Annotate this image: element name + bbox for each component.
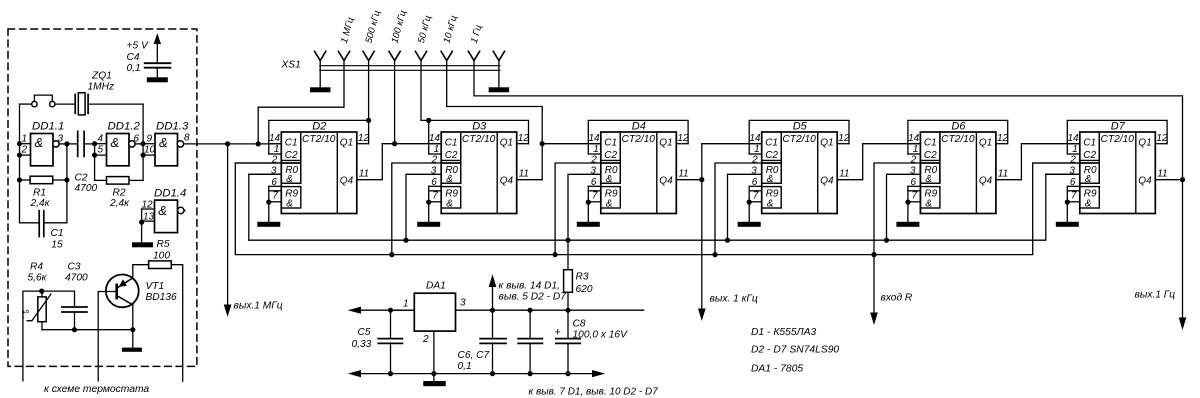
svg-text:R2: R2 (113, 187, 126, 198)
svg-text:2: 2 (910, 154, 917, 165)
svg-text:C1: C1 (285, 138, 298, 149)
svg-text:t°: t° (22, 309, 30, 321)
svg-text:&: & (446, 198, 453, 209)
svg-text:C1: C1 (924, 138, 937, 149)
svg-text:2,4к: 2,4к (109, 198, 130, 209)
wire: +9V input rail with arrow (348, 307, 415, 314)
svg-text:Q1: Q1 (979, 138, 992, 149)
ground for D5 R9 inputs (738, 222, 761, 227)
svg-text:12: 12 (518, 133, 530, 144)
svg-text:к выв. 14 D1,: к выв. 14 D1, (499, 280, 560, 291)
label: к выв. 7 D1, выв. 10 D2 - D7 (529, 387, 659, 398)
wire: D3 pin 3 to R0 rail (406, 174, 441, 240)
resistor R5 100 (133, 239, 183, 381)
svg-text:C2: C2 (285, 150, 298, 161)
svg-text:CT2/10: CT2/10 (1101, 134, 1135, 145)
svg-text:&: & (925, 174, 932, 185)
svg-text:&: & (606, 174, 613, 185)
wire: emitter-collector bottom net (42, 327, 135, 332)
svg-text:12: 12 (1156, 133, 1168, 144)
svg-text:C2: C2 (765, 150, 778, 161)
svg-text:620: 620 (576, 284, 593, 295)
ground for D3 R9 inputs (417, 222, 440, 227)
capacitor C7 0,1 (458, 310, 543, 373)
resistor R2 2,4k (107, 177, 144, 210)
capacitor C6 0,1 (480, 310, 506, 373)
svg-text:R1: R1 (33, 187, 46, 198)
wire: D6 pin 2 to reset rail (874, 163, 920, 255)
counter D6 CT2/10 (SN74LS90) (905, 120, 1021, 222)
svg-text:D2 - D7 SN74LS90: D2 - D7 SN74LS90 (751, 344, 839, 355)
svg-text:C2: C2 (924, 150, 937, 161)
capacitor C2 4700 (75, 131, 98, 194)
svg-text:вых.1 Гц: вых.1 Гц (1135, 290, 1176, 301)
regulator DA1 7805 (403, 281, 466, 346)
svg-text:D3: D3 (472, 120, 487, 132)
node: вход R input arrow (870, 252, 913, 325)
svg-text:4700: 4700 (75, 183, 98, 194)
svg-text:C1: C1 (765, 138, 778, 149)
svg-text:C1: C1 (445, 138, 458, 149)
svg-text:Q4: Q4 (659, 175, 673, 186)
wire: DD1.1 input node (crystal feedback left rail) (20, 104, 40, 223)
XS1 frequency labels (rotated) (339, 9, 485, 45)
svg-text:&: & (767, 174, 774, 185)
ground for DD1.4 inputs (132, 242, 153, 247)
svg-text:3: 3 (460, 298, 466, 309)
svg-text:2: 2 (590, 154, 597, 165)
gate DD1.3 (NAND &) (144, 120, 190, 166)
wire: DA1 pin 2 to ground (433, 331, 435, 381)
ground for D7 R9 inputs (1056, 222, 1079, 227)
svg-text:2: 2 (271, 154, 278, 165)
svg-text:DA1 - 7805: DA1 - 7805 (751, 364, 803, 375)
svg-text:C2: C2 (75, 172, 88, 183)
ground for D2 R9 inputs (257, 222, 280, 227)
wire: D7 pin 3 stub (1046, 173, 1080, 175)
svg-text:&: & (1085, 198, 1092, 209)
svg-text:3: 3 (1069, 166, 1075, 177)
wire: D2 pin 3 stub (249, 173, 281, 175)
capacitor C1 15 (39, 211, 63, 251)
gate DD1.4 (NAND &, inputs grounded) (139, 187, 186, 242)
svg-text:14: 14 (588, 133, 600, 144)
svg-text:&: & (606, 198, 613, 209)
transistor VT1 BD136 (PNP) (106, 265, 177, 348)
wire: C5 top branch (388, 308, 414, 313)
svg-text:CT2/10: CT2/10 (782, 134, 816, 145)
connector XS1 output pin forks (281, 51, 505, 70)
ground for VT1 collector (122, 348, 142, 352)
svg-text:&: & (925, 198, 932, 209)
svg-text:R5: R5 (157, 239, 170, 250)
svg-text:12: 12 (358, 133, 370, 144)
wire: 50 kHz tap from XS1 pin 5 (421, 61, 431, 123)
svg-text:D2: D2 (312, 120, 326, 132)
svg-text:12: 12 (677, 133, 689, 144)
svg-text:6: 6 (134, 133, 140, 144)
svg-text:C2: C2 (1083, 150, 1096, 161)
svg-text:D5: D5 (793, 120, 808, 132)
svg-text:5: 5 (98, 145, 104, 156)
counter D7 CT2/10 (SN74LS90) (1065, 120, 1181, 222)
wire: C2 to DD1.2 inputs and R2 left (92, 141, 107, 180)
svg-text:3: 3 (910, 166, 916, 177)
wire: R4/C3 top net to thermostat (23, 289, 75, 381)
svg-text:C1: C1 (51, 228, 64, 239)
XS1 pin 8 ground (489, 61, 510, 93)
gate DD1.1 (NAND) (21, 120, 67, 166)
svg-text:1: 1 (754, 144, 760, 155)
svg-text:Q4: Q4 (1138, 175, 1152, 186)
svg-text:Q1: Q1 (659, 138, 672, 149)
wire: reset input rail (pins 2, вход R) (235, 163, 1080, 257)
svg-text:1: 1 (593, 144, 599, 155)
gate DD1.2 (NAND &) (98, 120, 144, 166)
svg-text:1: 1 (403, 299, 409, 310)
node: вых.1 Гц output arrow (1135, 290, 1187, 330)
svg-text:Q4: Q4 (340, 175, 354, 186)
svg-text:C2: C2 (604, 150, 617, 161)
svg-text:&: & (286, 174, 293, 185)
svg-text:3: 3 (271, 166, 277, 177)
counter D2 CT2/10 (SN74LS90) (266, 120, 382, 222)
ground for C4 (147, 77, 168, 82)
svg-text:4: 4 (98, 133, 104, 144)
jumper S1 (crystal select) (20, 95, 76, 107)
counter D3 CT2/10 (SN74LS90) (426, 120, 542, 222)
wire: ground rail with arrows (348, 370, 605, 377)
crystal ZQ1 1MHz (75, 71, 143, 115)
svg-text:вход R: вход R (881, 292, 913, 303)
power +5 V arrow with capacitor C4 0,1 (127, 33, 171, 77)
ground for D4 R9 inputs (577, 222, 600, 227)
wire: D5 Q4 output to D6 pin 14 (837, 144, 920, 180)
svg-text:2: 2 (422, 334, 429, 345)
svg-text:вых. 1 кГц: вых. 1 кГц (710, 293, 758, 304)
svg-text:BD136: BD136 (146, 292, 177, 303)
wire: D2 Q4 output to D3 pin 14 (357, 144, 441, 180)
ground for DA1 (423, 381, 446, 386)
wire: crystal output rail down to DD1.3 inputs / R2 right (141, 104, 156, 180)
svg-text:C6, C7: C6, C7 (458, 350, 490, 361)
svg-text:7: 7 (753, 190, 759, 201)
svg-text:CT2/10: CT2/10 (462, 134, 496, 145)
XS1 pin 1 ground (310, 61, 331, 93)
svg-text:C1: C1 (604, 138, 617, 149)
capacitor C8 100,0 x 16V (electrolytic) (555, 310, 629, 373)
wire: +5V output rail (456, 308, 644, 313)
note: D1 - К555ЛА3 (751, 327, 816, 338)
svg-text:0,33: 0,33 (352, 339, 372, 350)
ground for D6 R9 inputs (896, 222, 919, 227)
svg-text:11: 11 (1157, 168, 1167, 179)
wire: D3 pin 2 to reset rail (392, 163, 441, 255)
svg-text:1: 1 (913, 144, 919, 155)
wire: D6 pin 3 to R0 rail (887, 174, 921, 240)
svg-text:D6: D6 (951, 120, 966, 132)
svg-text:3: 3 (751, 166, 757, 177)
svg-text:11: 11 (359, 168, 369, 179)
wire: D4 Q4 output to D5 pin 14 (676, 144, 761, 180)
XS1 bus rails (320, 66, 500, 71)
note: D2 - D7 SN74LS90 (751, 344, 839, 355)
svg-text:14: 14 (749, 133, 761, 144)
svg-text:7: 7 (592, 190, 598, 201)
wire: R0 rail (pins 3, pulled up by R3) (249, 174, 1080, 242)
svg-text:2,4к: 2,4к (30, 198, 51, 209)
svg-text:100,0 x 16V: 100,0 x 16V (573, 329, 629, 340)
wire: D4 pin 2 to reset rail (555, 163, 601, 255)
svg-text:C8: C8 (573, 319, 586, 330)
svg-text:Q1: Q1 (500, 138, 513, 149)
svg-text:12: 12 (997, 133, 1009, 144)
svg-text:C3: C3 (68, 261, 81, 272)
svg-text:&: & (446, 174, 453, 185)
svg-text:D7: D7 (1111, 120, 1126, 132)
svg-text:Q1: Q1 (340, 138, 353, 149)
svg-text:7: 7 (432, 190, 438, 201)
svg-text:&: & (111, 135, 120, 150)
svg-text:4700: 4700 (65, 272, 88, 283)
wire: 1 MHz net DD1.3 pin 8 output to D2 pin 14 (184, 141, 282, 146)
svg-text:R3: R3 (576, 271, 589, 282)
node: вых. 1 кГц output arrow (698, 177, 758, 321)
svg-text:14: 14 (908, 133, 920, 144)
wire: D6 Q4 output to D7 pin 14 (996, 144, 1080, 180)
svg-text:+5 V: +5 V (127, 41, 149, 52)
svg-text:11: 11 (998, 168, 1008, 179)
counter D5 CT2/10 (SN74LS90) (747, 120, 863, 222)
svg-text:11: 11 (839, 168, 849, 179)
svg-text:Q4: Q4 (820, 175, 834, 186)
svg-text:1MHz: 1MHz (88, 82, 115, 93)
svg-text:DD1.1: DD1.1 (32, 120, 64, 132)
svg-text:5,6к: 5,6к (28, 272, 48, 283)
svg-text:XS1: XS1 (281, 59, 301, 70)
wire: D7 pin 2 stub (1033, 162, 1080, 164)
wire: D2 pin 2 stub (235, 162, 281, 164)
wire: node 3 to C2 and R1/C1 branch (44, 141, 78, 223)
svg-text:7: 7 (272, 190, 278, 201)
svg-text:C2: C2 (445, 150, 458, 161)
svg-text:ZQ1: ZQ1 (91, 71, 112, 82)
svg-text:+: + (555, 327, 561, 339)
dashed enclosure (D1 thermostat section border) (8, 29, 197, 366)
svg-text:14: 14 (429, 133, 441, 144)
svg-text:11: 11 (678, 168, 688, 179)
svg-text:15: 15 (51, 240, 63, 251)
svg-text:C4: C4 (127, 52, 140, 63)
svg-text:3: 3 (590, 166, 596, 177)
capacitor C5 0,33 (352, 310, 403, 373)
svg-text:3: 3 (431, 166, 437, 177)
svg-text:10: 10 (144, 145, 156, 156)
svg-text:Q1: Q1 (1138, 138, 1151, 149)
wire: 500 kHz tap from XS1 pin 3 (366, 61, 371, 123)
svg-text:CT2/10: CT2/10 (941, 134, 975, 145)
svg-text:100: 100 (153, 251, 170, 262)
svg-text:12: 12 (838, 133, 850, 144)
svg-text:0,1: 0,1 (127, 63, 141, 74)
svg-text:Q1: Q1 (820, 138, 833, 149)
wire: D4 pin 3 to R0 rail (568, 174, 601, 240)
svg-text:VT1: VT1 (146, 281, 165, 292)
svg-text:2: 2 (21, 145, 28, 156)
wire: 1 Hz net from XS1 pin 7 to D7 output (474, 61, 1185, 322)
wire: VT1 base net to thermostat (98, 292, 116, 381)
svg-text:к схеме термостата: к схеме термостата (44, 384, 149, 395)
svg-text:к выв. 7 D1, выв. 10 D2 - D7: к выв. 7 D1, выв. 10 D2 - D7 (529, 387, 659, 398)
label: к схеме термостата (44, 384, 149, 395)
svg-text:выв. 5 D2 - D7: выв. 5 D2 - D7 (499, 292, 567, 303)
svg-text:8: 8 (184, 133, 190, 144)
junction dots on DD1.1 input rail (17, 141, 22, 183)
svg-text:DD1.4: DD1.4 (154, 187, 186, 199)
svg-text:Q4: Q4 (979, 175, 993, 186)
svg-text:DA1: DA1 (426, 281, 446, 292)
thermistor R4 5,6k (22, 261, 51, 329)
node: вых.1 МГц output arrow (224, 144, 283, 317)
wire: 100 kHz tap from XS1 pin 4 (392, 61, 397, 147)
svg-text:Q4: Q4 (500, 175, 514, 186)
svg-text:1: 1 (1072, 144, 1078, 155)
wire: D5 pin 2 to reset rail (715, 163, 762, 255)
svg-text:2: 2 (751, 154, 758, 165)
svg-text:7: 7 (912, 190, 918, 201)
note: DA1 - 7805 (751, 364, 803, 375)
wire: D3 Q4 output to D4 pin 14 (517, 144, 601, 180)
svg-text:C5: C5 (358, 327, 371, 338)
svg-text:2: 2 (431, 154, 438, 165)
svg-text:&: & (767, 198, 774, 209)
svg-text:1: 1 (434, 144, 440, 155)
svg-text:11: 11 (519, 168, 529, 179)
svg-text:&: & (1085, 174, 1092, 185)
wire: D5 pin 3 to R0 rail (728, 174, 762, 240)
wire: 1 MHz tap from XS1 pin 2 (258, 61, 344, 144)
svg-text:CT2/10: CT2/10 (622, 134, 656, 145)
svg-text:CT2/10: CT2/10 (302, 134, 336, 145)
svg-text:7: 7 (1071, 190, 1077, 201)
svg-text:D1 - К555ЛА3: D1 - К555ЛА3 (751, 327, 816, 338)
svg-text:&: & (286, 198, 293, 209)
svg-text:9: 9 (147, 133, 153, 144)
wire: 10 kHz tap from XS1 pin 6 (447, 61, 545, 147)
svg-text:14: 14 (1067, 133, 1079, 144)
resistor R1 2,4k (20, 176, 67, 209)
node: +5V to logic arrow (к выв. 14 D1, выв. 5 D2 - D7) (489, 274, 567, 310)
svg-text:DD1.3: DD1.3 (156, 120, 189, 132)
svg-text:C1: C1 (1083, 138, 1096, 149)
svg-text:R4: R4 (30, 261, 43, 272)
svg-text:3: 3 (58, 133, 64, 144)
svg-text:&: & (158, 203, 167, 218)
svg-text:1: 1 (22, 133, 28, 144)
svg-text:0,1: 0,1 (458, 361, 472, 372)
svg-text:&: & (35, 135, 44, 150)
wire: D7 Q4 output to 1 Hz line (1155, 179, 1182, 181)
svg-text:2: 2 (1069, 154, 1076, 165)
svg-text:14: 14 (269, 133, 281, 144)
svg-text:1: 1 (274, 144, 280, 155)
capacitor C3 4700 (62, 261, 88, 329)
resistor R3 620 (564, 240, 593, 310)
svg-text:вых.1 МГц: вых.1 МГц (234, 301, 283, 312)
svg-text:D4: D4 (632, 120, 646, 132)
svg-text:&: & (159, 135, 168, 150)
svg-text:DD1.2: DD1.2 (108, 120, 141, 132)
counter D4 CT2/10 (SN74LS90) (586, 120, 702, 222)
